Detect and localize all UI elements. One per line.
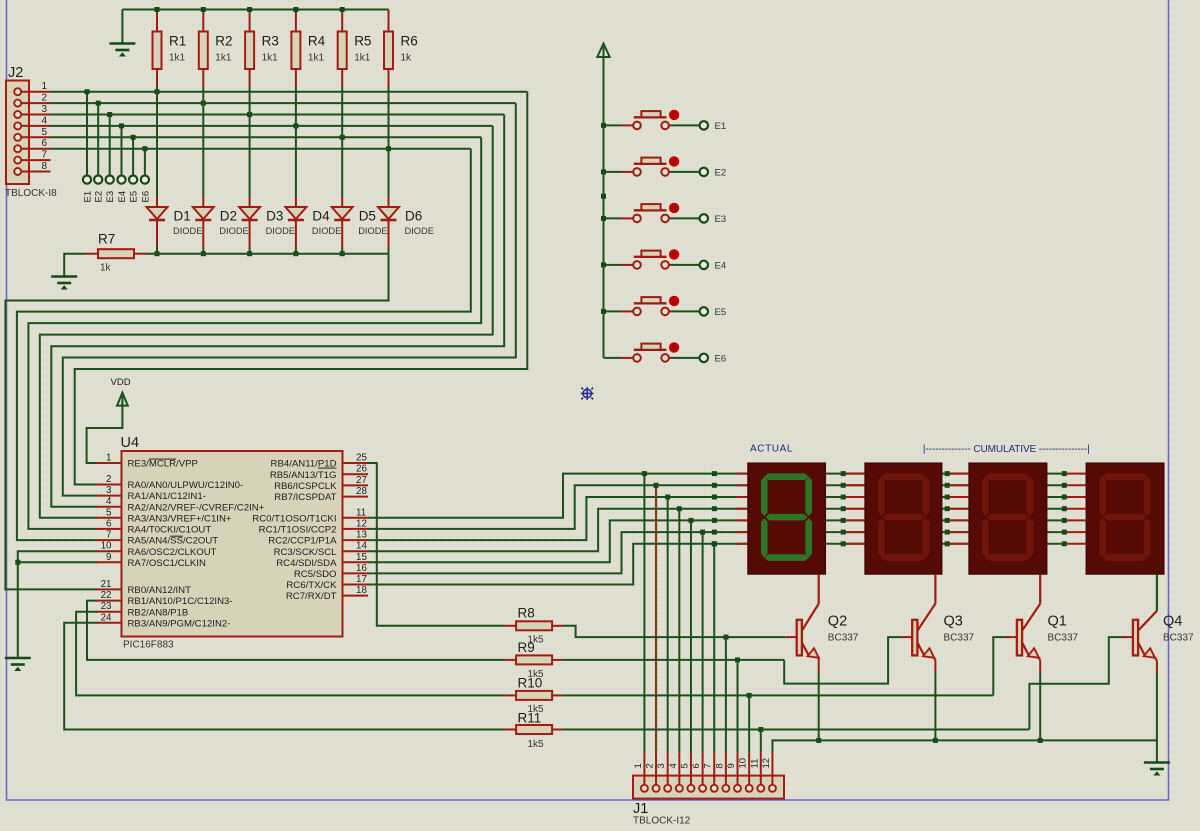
resistor R3 pins <box>249 10 251 32</box>
svg-text:RA0/AN0/ULPWU/C12IN0-: RA0/AN0/ULPWU/C12IN0- <box>128 480 244 491</box>
resistor R8 <box>516 621 552 630</box>
IC U4 PIC16F883 body <box>122 451 343 637</box>
terminal E3 (buttons) <box>700 214 708 222</box>
svg-text:R2: R2 <box>215 34 232 49</box>
diode D4 cathode pin <box>295 220 297 248</box>
svg-text:6: 6 <box>691 763 702 768</box>
ground (top left) <box>109 44 135 57</box>
junction row 4 <box>712 506 717 511</box>
U4 pin 6 (RA4) <box>97 528 122 530</box>
svg-text:RC1/T1OSI/CCP2: RC1/T1OSI/CCP2 <box>259 525 337 536</box>
wire RC5 (pin 16) staircase <box>368 532 1064 573</box>
U4 pin 11 stub <box>343 517 369 519</box>
svg-text:7: 7 <box>106 530 111 541</box>
svg-text:1: 1 <box>41 81 47 92</box>
diode D5 cathode pin <box>341 220 343 248</box>
J1 pin 6 stub <box>702 753 704 785</box>
push button E6 <box>604 342 700 362</box>
svg-text:E6: E6 <box>715 353 727 364</box>
diode D1 <box>147 207 168 219</box>
junction J1 col 11 <box>758 727 763 732</box>
junction E3 drop <box>107 112 112 117</box>
J1 pin 9 stub <box>737 753 739 785</box>
junction row 1 <box>712 471 717 476</box>
junction E2 drop <box>96 101 101 106</box>
resistor R1 <box>153 32 162 70</box>
junction Q1 emitter <box>1038 738 1043 743</box>
svg-text:RB4/AN11/P1D: RB4/AN11/P1D <box>271 459 337 470</box>
terminal E1 <box>83 176 91 184</box>
svg-text:8: 8 <box>714 763 725 768</box>
diode D5 anode pin <box>341 197 343 208</box>
svg-text:RB3/AN9/PGM/C12IN2-: RB3/AN9/PGM/C12IN2- <box>128 618 231 629</box>
J2 pin 3 stub <box>21 114 50 116</box>
wire J1 column 1 <box>643 474 645 753</box>
junction row 4 <box>1062 506 1067 511</box>
wire R11 step to Q4 base <box>563 729 1029 731</box>
junction rail E5 <box>601 309 606 314</box>
wire J2 row 6 routing to PIC <box>17 149 471 540</box>
resistor R11 leads <box>505 729 516 731</box>
svg-text:1k: 1k <box>401 53 413 64</box>
resistor R5 <box>338 32 347 70</box>
junction R1 column <box>155 89 160 94</box>
wire VDD to pin 1 <box>87 404 123 463</box>
svg-text:BC337: BC337 <box>828 633 859 644</box>
junction J1 col 8 <box>723 635 728 640</box>
svg-text:RC0/T1OSO/T1CKI: RC0/T1OSO/T1CKI <box>252 513 336 524</box>
U4 pin 24 (RB3) <box>97 622 122 624</box>
svg-text:1: 1 <box>633 763 644 768</box>
svg-text:RC5/SDO: RC5/SDO <box>294 569 337 580</box>
diode D6 <box>378 207 399 219</box>
svg-text:1k1: 1k1 <box>308 53 325 64</box>
svg-text:5: 5 <box>679 763 690 768</box>
wire D6 to bus <box>388 248 390 254</box>
svg-text:D5: D5 <box>359 209 376 224</box>
svg-text:2: 2 <box>645 763 656 768</box>
U4 pin 26 stub <box>343 473 369 475</box>
svg-text:E3: E3 <box>715 214 727 225</box>
diode D2 cathode pin <box>202 220 204 248</box>
junction row 2 <box>712 483 717 488</box>
push button E3 <box>604 203 700 223</box>
svg-text:RC6/TX/CK: RC6/TX/CK <box>286 580 337 591</box>
junction row 4 <box>945 506 950 511</box>
svg-text:Q4: Q4 <box>1163 614 1182 630</box>
junction row 7 <box>712 541 717 546</box>
junction row 6 <box>1062 530 1067 535</box>
wire RA6 (pin 10) to ground <box>18 551 97 657</box>
junction J1 column 6 top <box>700 530 705 535</box>
wire J2 pin 3 row <box>51 114 505 116</box>
diode D3 cathode pin <box>249 220 251 248</box>
wire RB1 (pin 22) to R9 row <box>87 601 505 660</box>
svg-text:2: 2 <box>106 474 111 485</box>
junction row 3 <box>841 495 846 500</box>
push button E5 <box>604 296 700 316</box>
U4 pin 21 (RB0) <box>97 588 122 590</box>
wire J1 column 4 <box>678 509 680 753</box>
svg-text:E4: E4 <box>117 191 128 203</box>
resistor R10 <box>516 691 552 700</box>
wire RC0 (pin 11) staircase <box>368 474 1064 518</box>
diode D4 <box>285 207 306 219</box>
junction row 3 <box>1062 495 1067 500</box>
transistor Q4 <box>1122 574 1194 673</box>
junction top rail <box>247 7 252 12</box>
junction row 7 <box>841 541 846 546</box>
junction rail E2 <box>601 169 606 174</box>
resistor R6 <box>384 32 393 70</box>
wire R3 to D3 <box>249 87 251 197</box>
wire drop to terminal E3 <box>109 115 111 176</box>
resistor R2 pins <box>202 10 204 32</box>
diode D6 cathode pin <box>388 220 390 248</box>
svg-text:U4: U4 <box>121 435 140 451</box>
resistor R7 leads <box>86 253 99 255</box>
wire Q3 emitter down <box>934 673 936 740</box>
svg-text:R6: R6 <box>401 34 418 49</box>
J2 pin 4 stub <box>21 125 50 127</box>
junction RA7 ground <box>15 560 20 565</box>
junction row 4 <box>841 506 846 511</box>
wire R6 to D6 <box>388 87 390 197</box>
wire J2 row 3 routing to PIC <box>51 115 504 507</box>
terminal E6 <box>141 176 149 184</box>
segment row 4 red stubs into displays <box>736 508 748 510</box>
svg-text:R1: R1 <box>169 34 186 49</box>
diode D2 <box>193 207 214 219</box>
diode D1 cathode pin <box>156 220 158 248</box>
wire J1 column 9 <box>737 660 739 753</box>
junction R4 column <box>293 123 298 128</box>
junction E5 drop <box>131 135 136 140</box>
svg-text:ACTUAL: ACTUAL <box>750 443 793 454</box>
svg-text:10: 10 <box>101 541 112 552</box>
svg-text:4: 4 <box>41 115 47 126</box>
wire RB2 (pin 23) to R10 row <box>76 612 505 696</box>
svg-text:1: 1 <box>106 453 111 464</box>
J1 pin 8 stub <box>725 753 727 785</box>
J1 pin 5 stub <box>690 753 692 785</box>
junction top rail <box>155 7 160 12</box>
transistor Q2 <box>786 574 859 673</box>
segment row 5 red stubs into displays <box>736 519 748 521</box>
svg-text:R4: R4 <box>308 34 326 49</box>
svg-text:3: 3 <box>41 104 47 115</box>
svg-text:Q1: Q1 <box>1048 614 1067 630</box>
U4 pin 27 stub <box>343 484 369 486</box>
svg-text:15: 15 <box>356 552 367 563</box>
mouse crosshair <box>581 387 594 400</box>
U4 pin 28 stub <box>343 496 369 498</box>
wire J1 column 11 <box>760 730 762 753</box>
svg-text:5: 5 <box>41 127 47 138</box>
terminal E5 (buttons) <box>700 307 708 315</box>
junction row 3 <box>712 495 717 500</box>
svg-text:11: 11 <box>356 507 366 518</box>
diode D3 <box>239 207 260 219</box>
junction row 6 <box>841 530 846 535</box>
wire D1 to bus <box>156 248 158 254</box>
transistor Q1 <box>1006 574 1079 673</box>
junction rail E3 <box>601 216 606 221</box>
7-segment display 1 <box>748 463 825 574</box>
terminal E4 <box>117 176 125 184</box>
junction row 2 <box>945 483 950 488</box>
junction diode bus <box>293 251 298 256</box>
diode D5 <box>332 207 353 219</box>
wire J2 pin 6 row <box>51 148 471 150</box>
wire J2 pin 1 row <box>51 91 528 93</box>
svg-text:7: 7 <box>41 150 47 161</box>
wire RC4 (pin 15) staircase <box>368 520 1064 562</box>
svg-text:RB6/ICSPCLK: RB6/ICSPCLK <box>274 481 337 492</box>
svg-text:J2: J2 <box>8 65 23 81</box>
svg-text:E1: E1 <box>715 121 727 132</box>
power arrow (buttons rail) <box>597 44 609 58</box>
U4 pin 14 stub <box>343 550 369 552</box>
svg-text:R7: R7 <box>98 232 115 247</box>
terminal E5 <box>129 176 137 184</box>
svg-text:R8: R8 <box>518 606 535 621</box>
terminal E3 <box>106 176 114 184</box>
svg-text:E4: E4 <box>715 260 727 271</box>
resistor R2 <box>199 32 208 70</box>
svg-text:7: 7 <box>703 763 714 768</box>
resistor R4 pins <box>295 10 297 32</box>
wire RB3 (pin 24) to R11 row <box>64 623 505 730</box>
wire J1 column 7 <box>713 544 715 753</box>
wire drop to terminal E2 <box>97 103 99 176</box>
svg-text:1k1: 1k1 <box>169 53 186 64</box>
svg-text:RA1/AN1/C12IN1-: RA1/AN1/C12IN1- <box>128 491 206 502</box>
wire top rail to resistors <box>122 9 388 11</box>
svg-text:RB0/AN12/INT: RB0/AN12/INT <box>128 585 192 596</box>
U4 pin 25 stub <box>343 462 369 464</box>
svg-text:E5: E5 <box>129 191 140 203</box>
svg-text:R3: R3 <box>262 34 279 49</box>
wire J2 row 4 routing to PIC <box>40 126 493 518</box>
svg-text:12: 12 <box>761 758 772 769</box>
wire RC1 (pin 12) staircase <box>368 485 1064 529</box>
wire RA7 (pin 9) join <box>18 561 97 563</box>
svg-text:DIODE: DIODE <box>358 226 387 236</box>
svg-text:21: 21 <box>101 579 112 590</box>
junction row 2 <box>841 483 846 488</box>
U4 pin 5 (RA3) <box>97 517 122 519</box>
svg-text:3: 3 <box>106 485 112 496</box>
svg-text:11: 11 <box>749 759 760 769</box>
U4 pin 12 stub <box>343 528 369 530</box>
svg-text:TBLOCK-I12: TBLOCK-I12 <box>633 816 691 827</box>
junction diode bus <box>201 251 206 256</box>
wire D3 to bus <box>249 248 251 254</box>
U4 pin 17 stub <box>343 584 369 586</box>
diode D2 anode pin <box>202 197 204 208</box>
diode D1 anode pin <box>156 197 158 208</box>
terminal E6 (buttons) <box>700 354 708 362</box>
ground (bottom right) <box>1144 763 1170 776</box>
svg-text:9: 9 <box>726 763 737 768</box>
svg-text:E2: E2 <box>715 167 727 178</box>
svg-text:28: 28 <box>356 486 367 497</box>
svg-text:RE3/MCLR/VPP: RE3/MCLR/VPP <box>128 459 198 470</box>
wire drop to terminal E1 <box>86 92 88 176</box>
svg-text:BC337: BC337 <box>1163 633 1194 644</box>
svg-text:RC2/CCP1/P1A: RC2/CCP1/P1A <box>268 536 337 547</box>
junction J1 column 7 top <box>712 541 717 546</box>
segment row 6 red stubs into displays <box>736 531 748 533</box>
wire R8 to Q2 base <box>563 626 785 637</box>
wire J1 column 10 <box>748 695 750 752</box>
resistor R7 <box>98 249 134 258</box>
junction rail E1 <box>601 123 606 128</box>
U4 pin 1 (RE3) <box>97 462 122 464</box>
svg-text:BC337: BC337 <box>944 633 975 644</box>
svg-text:9: 9 <box>106 552 111 563</box>
wire ground stub top-left <box>121 10 123 44</box>
svg-text:D1: D1 <box>174 209 191 224</box>
resistor R4 <box>291 32 300 70</box>
resistor R8 leads <box>505 625 516 627</box>
wire display column 2 (brown) <box>655 485 657 752</box>
svg-text:E1: E1 <box>83 191 94 203</box>
junction row 3 <box>945 495 950 500</box>
wire R9 step to Q3 base <box>784 637 901 684</box>
segment row 1 red stubs into displays <box>736 473 748 475</box>
wire R2 to D2 <box>202 87 204 197</box>
junction row 2 <box>1062 483 1067 488</box>
svg-text:DIODE: DIODE <box>405 226 434 236</box>
svg-text:PIC16F883: PIC16F883 <box>123 640 174 651</box>
wire RC6 (pin 17) staircase <box>368 544 1064 585</box>
svg-text:4: 4 <box>106 496 112 507</box>
svg-text:8: 8 <box>41 161 47 172</box>
svg-text:RA6/OSC2/CLKOUT: RA6/OSC2/CLKOUT <box>128 547 217 558</box>
wire display 3 common to Q1 <box>1039 574 1041 604</box>
U4 pin 9 (RA7) <box>97 561 122 563</box>
J1 pin 11 stub <box>760 753 762 785</box>
diode D4 anode pin <box>295 197 297 208</box>
7-segment display 2 <box>865 463 942 574</box>
svg-text:RA2/AN2/VREF-/CVREF/C2IN+: RA2/AN2/VREF-/CVREF/C2IN+ <box>128 502 265 513</box>
U4 pin 3 (RA1) <box>97 495 122 497</box>
junction R6 column <box>386 146 391 151</box>
J1 pin 3 stub <box>667 753 669 785</box>
svg-text:RA4/T0CKI/C1OUT: RA4/T0CKI/C1OUT <box>128 525 212 536</box>
wire drop to terminal E6 <box>144 149 146 176</box>
svg-text:27: 27 <box>356 475 367 486</box>
wire J2 row 2 routing to PIC <box>63 103 516 496</box>
svg-text:RC3/SCK/SCL: RC3/SCK/SCL <box>274 547 338 558</box>
U4 pin 13 stub <box>343 539 369 541</box>
junction diode bus <box>155 251 160 256</box>
svg-text:R10: R10 <box>518 676 543 691</box>
resistor R9 leads <box>505 659 516 661</box>
svg-text:BC337: BC337 <box>1048 633 1079 644</box>
wire display 1 common to Q2 <box>818 574 820 604</box>
wire diode bus <box>146 253 389 255</box>
ground (left, oscillator) <box>5 658 31 671</box>
svg-text:13: 13 <box>356 530 367 541</box>
wire R4 to D4 <box>295 87 297 197</box>
svg-text:D6: D6 <box>405 209 422 224</box>
diode D6 anode pin <box>388 197 390 208</box>
svg-text:RC4/SDI/SDA: RC4/SDI/SDA <box>276 558 337 569</box>
svg-text:18: 18 <box>356 585 367 596</box>
svg-text:RB2/AN8/P1B: RB2/AN8/P1B <box>128 607 189 618</box>
junction rail E4 <box>601 262 606 267</box>
wire J2 pin 4 row <box>51 125 493 127</box>
svg-text:E3: E3 <box>105 191 116 203</box>
7-segment display 4 <box>1086 463 1164 574</box>
junction J1 column 3 top <box>665 495 670 500</box>
junction row 5 <box>1062 518 1067 523</box>
wire R7 to ground <box>64 254 85 276</box>
svg-text:|-------------- CUMULATIVE ---: |-------------- CUMULATIVE -------------… <box>923 444 1090 455</box>
J2 pin 6 stub <box>21 148 50 150</box>
svg-text:RA5/AN4/SS/C2OUT: RA5/AN4/SS/C2OUT <box>128 536 219 547</box>
svg-text:22: 22 <box>101 590 112 601</box>
junction row 5 <box>712 518 717 523</box>
segment row 3 red stubs into displays <box>736 496 748 498</box>
svg-text:RB7/ICSPDAT: RB7/ICSPDAT <box>274 492 336 503</box>
junction rail (stray) <box>601 194 606 199</box>
junction row 5 <box>945 518 950 523</box>
wire bus to RB0 (pin 21) <box>5 254 388 590</box>
wire RC3 (pin 14) staircase <box>368 509 1064 552</box>
junction R3 column <box>247 112 252 117</box>
junction row 5 <box>841 518 846 523</box>
junction J1 column 2 top <box>654 483 659 488</box>
wire RC2 (pin 13) staircase <box>368 497 1064 540</box>
svg-text:17: 17 <box>356 574 367 585</box>
wire emitter ground row <box>772 740 1156 761</box>
U4 pin 15 stub <box>343 561 369 563</box>
svg-text:3: 3 <box>656 763 667 768</box>
U4 pin 23 (RB2) <box>97 611 122 613</box>
junction R2 column <box>201 101 206 106</box>
U4 pin 18 stub <box>343 595 369 597</box>
junction J1 column 5 top <box>689 518 694 523</box>
svg-text:1k1: 1k1 <box>354 53 371 64</box>
svg-text:D2: D2 <box>220 209 237 224</box>
svg-text:2: 2 <box>41 93 47 104</box>
junction diode bus <box>340 251 345 256</box>
svg-text:DIODE: DIODE <box>312 226 341 236</box>
diode D3 anode pin <box>249 197 251 208</box>
svg-text:1k1: 1k1 <box>262 53 279 64</box>
svg-text:14: 14 <box>356 541 367 552</box>
wire J1 column 3 <box>667 497 669 753</box>
svg-text:RA7/OSC1/CLKIN: RA7/OSC1/CLKIN <box>128 558 206 569</box>
wire RB4 (pin 25) to R8 <box>368 463 505 626</box>
resistor R3 <box>245 32 254 70</box>
svg-text:DIODE: DIODE <box>219 226 248 236</box>
J2 pin 7 stub <box>21 159 50 161</box>
junction E1 drop <box>85 89 90 94</box>
wire J2 row 1 routing to PIC <box>75 92 528 485</box>
svg-text:TBLOCK-I8: TBLOCK-I8 <box>5 188 57 199</box>
J1 pin 1 stub <box>643 753 645 785</box>
junction J1 col 9 <box>735 657 740 662</box>
7-segment display 3 <box>969 463 1047 574</box>
svg-text:6: 6 <box>41 138 47 149</box>
terminal E4 (buttons) <box>700 261 708 269</box>
svg-text:4: 4 <box>668 763 679 768</box>
